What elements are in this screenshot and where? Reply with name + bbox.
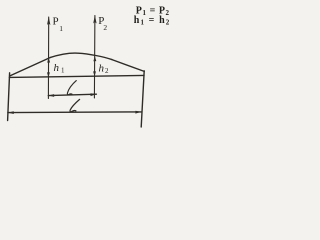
arrowhead h2 bottom <box>93 71 96 76</box>
paper background <box>0 0 178 135</box>
svg-text:h: h <box>99 63 105 75</box>
right support vertical <box>141 71 144 127</box>
arrowhead h1 top <box>47 57 50 62</box>
right slant of influence line <box>112 60 144 72</box>
arrowhead P1 <box>47 17 50 26</box>
svg-text:h: h <box>54 62 60 74</box>
arrowhead h1 bottom <box>47 72 50 77</box>
label l (inner span, script ell) <box>67 81 76 95</box>
svg-text:2: 2 <box>103 23 107 32</box>
l dimension line <box>48 94 96 95</box>
L dimension line <box>8 111 141 114</box>
arrowhead h2 top <box>93 56 96 61</box>
svg-text:2: 2 <box>105 67 109 75</box>
svg-text:1: 1 <box>61 67 65 75</box>
P2 load line <box>93 16 96 99</box>
P1 load line <box>47 17 49 99</box>
arrowhead l left <box>48 94 54 97</box>
left support vertical <box>8 73 10 121</box>
label L (full span, script ell) <box>70 99 80 111</box>
arrowhead L left <box>8 111 14 114</box>
top curve of influence line <box>50 53 112 59</box>
svg-text:P: P <box>53 16 59 28</box>
arrowhead P2 <box>93 15 96 24</box>
arrowhead L right <box>135 111 141 114</box>
svg-text:1: 1 <box>59 24 63 33</box>
left slant of influence line <box>10 58 50 76</box>
svg-text:h1 = h2: h1 = h2 <box>134 15 171 27</box>
arrowhead l right <box>91 93 97 96</box>
baseline <box>9 75 144 77</box>
